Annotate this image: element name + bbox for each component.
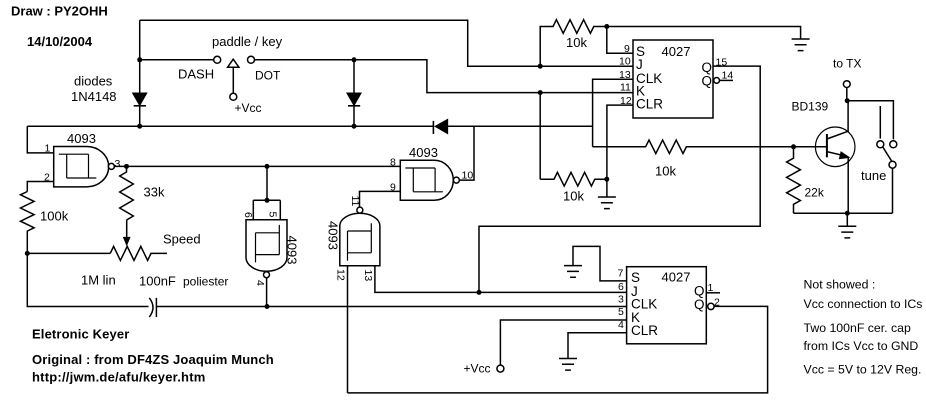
wire: S pin 9 of U5 from R3 junction xyxy=(607,27,633,54)
wire: U2 pin 9 from U4 output xyxy=(360,191,401,207)
node: collector junction xyxy=(845,98,850,103)
node: K wire branch xyxy=(538,90,543,95)
wire: U1 pin 2 input xyxy=(27,182,53,192)
wire: capacitor to CLK pin 3 of U6 4027 xyxy=(156,306,626,308)
tune switch lever diagonal xyxy=(883,147,892,161)
paddle common lever (triangle) xyxy=(228,59,239,67)
svg-text:2: 2 xyxy=(44,172,50,184)
svg-text:Vcc connection to ICs: Vcc connection to ICs xyxy=(804,297,923,311)
node: DOT contact terminal xyxy=(248,56,255,63)
wire: K branch down from pin 11 wire xyxy=(539,93,541,180)
svg-text:100nF: 100nF xyxy=(139,274,176,289)
transistor Q1 emitter arrow xyxy=(840,152,849,158)
svg-text:Original : from DF4ZS Joaquim: Original : from DF4ZS Joaquim Munch xyxy=(32,352,274,367)
gate U4 4093 (pointing up) xyxy=(340,207,380,266)
U6 Qbar pin 2 bubble xyxy=(708,303,714,309)
wire: main diode bus (right part) to CLK branch xyxy=(447,125,592,127)
diode D2 cathode bar xyxy=(348,105,360,107)
svg-text:Q: Q xyxy=(694,297,705,312)
node: R5 right to CLR ground line xyxy=(604,177,609,182)
svg-text:http://jwm.de/afu/keyer.htm: http://jwm.de/afu/keyer.htm xyxy=(32,370,206,385)
resistor R2 100k xyxy=(20,192,34,254)
svg-text:8: 8 xyxy=(390,157,396,169)
diode D1 1N4148 (DASH) wire xyxy=(139,60,141,126)
svg-text:10k: 10k xyxy=(566,35,587,50)
svg-text:diodes: diodes xyxy=(74,74,113,89)
svg-text:4093: 4093 xyxy=(326,221,341,250)
wire: emitter bottom rail xyxy=(794,212,893,214)
node: base junction R4/R6 xyxy=(791,144,796,149)
svg-text:Draw : PY2OHH: Draw : PY2OHH xyxy=(11,4,108,19)
wire: main diode bus (left part) xyxy=(27,125,433,127)
wire top: DASH junction to J pin of U5 4027 xyxy=(140,20,633,66)
node: D1 to diode bus xyxy=(137,124,142,129)
wire: S pin 7 of U6 to ground xyxy=(573,246,627,281)
diode D1 cathode bar xyxy=(134,105,146,107)
wire: to TX terminal to collector node xyxy=(846,88,848,101)
wire: emitter down to bottom rail xyxy=(847,157,849,213)
svg-text:Two 100nF cer. cap: Two 100nF cer. cap xyxy=(804,321,911,335)
svg-text:CLR: CLR xyxy=(631,323,658,338)
node: +Vcc terminal (bottom) xyxy=(497,365,504,372)
ground GND4 (CLR of U6) xyxy=(559,359,577,371)
gate U1 output bubble xyxy=(108,163,114,169)
svg-text:10k: 10k xyxy=(655,164,676,179)
svg-text:DASH: DASH xyxy=(178,67,214,82)
diode D3 body (pointing left) xyxy=(436,120,448,133)
svg-text:22k: 22k xyxy=(805,186,825,200)
wire: 100k junction to pot RV1 xyxy=(27,252,110,254)
transistor Q1 BD139 circle xyxy=(815,127,855,167)
svg-text:4093: 4093 xyxy=(67,131,96,146)
tune switch upper left contact xyxy=(877,141,884,148)
svg-text:9: 9 xyxy=(624,43,630,55)
wire: U5 Q pin 15 to second flip-flop J net xyxy=(479,66,760,292)
svg-text:10: 10 xyxy=(619,56,631,68)
svg-text:poliester: poliester xyxy=(183,275,228,289)
svg-text:4027: 4027 xyxy=(662,270,691,285)
svg-text:from ICs Vcc to GND: from ICs Vcc to GND xyxy=(804,339,919,353)
node: +Vcc terminal (paddle) xyxy=(230,93,237,100)
resistor R5 10k (K pulldown) xyxy=(540,172,607,186)
svg-text:S: S xyxy=(631,270,640,285)
wire: 33k to pot wiper arrow xyxy=(126,220,128,238)
svg-text:9: 9 xyxy=(390,182,396,194)
svg-text:BD139: BD139 xyxy=(792,100,829,114)
svg-text:Not showed :: Not showed : xyxy=(804,278,876,292)
wire: U1 pin 1 input from diode bus xyxy=(27,126,53,153)
wire: DASH junction to DASH contact xyxy=(140,59,214,61)
svg-text:15: 15 xyxy=(716,57,728,69)
svg-text:+Vcc: +Vcc xyxy=(235,101,262,115)
svg-text:2: 2 xyxy=(714,297,720,309)
IC U6 4027 box xyxy=(627,267,707,344)
diode D3 cathode bar xyxy=(432,121,434,134)
node: to TX terminal xyxy=(843,81,850,88)
capacitor C1 100nF curved plate xyxy=(149,298,153,317)
wire: CLR pin 12 of U5 to ground xyxy=(607,105,633,197)
wire: emitter rail to ground xyxy=(846,213,848,226)
node: R3 left to J wire xyxy=(538,64,543,69)
svg-text:6: 6 xyxy=(618,281,624,293)
transistor Q1 base bar xyxy=(826,134,828,157)
wire: tune switch to emitter rail xyxy=(892,168,894,213)
wire: base from R4 junction xyxy=(794,146,827,148)
wire: U3 input manifold from U1 output net xyxy=(253,166,280,219)
svg-text:14/10/2004: 14/10/2004 xyxy=(27,34,93,49)
gate U1 schmitt symbol xyxy=(59,154,97,178)
svg-text:to TX: to TX xyxy=(833,57,861,71)
wire: U4 pin 13 input to J pin 6 of U6 xyxy=(375,266,627,293)
ground GND1 (top right) xyxy=(792,39,810,51)
svg-text:Q: Q xyxy=(702,74,713,89)
capacitor C1 straight plate xyxy=(155,298,157,317)
diode D2 1N4148 body xyxy=(347,93,360,105)
wire: U4 pin 12 input from U6 Qbar net xyxy=(347,266,349,393)
gate U2 schmitt symbol xyxy=(405,168,443,192)
svg-text:1N4148: 1N4148 xyxy=(71,89,117,104)
svg-text:4: 4 xyxy=(254,280,266,286)
svg-text:12: 12 xyxy=(620,95,632,107)
svg-text:6: 6 xyxy=(242,212,254,218)
gate U3 4093 (pointing down) xyxy=(246,220,287,278)
node: D2 to diode bus xyxy=(352,124,357,129)
U5 Qbar pin 14 bubble xyxy=(714,78,720,84)
diode D2 1N4148 (DOT) wire xyxy=(353,60,355,126)
node: 100k to pot junction xyxy=(25,251,30,256)
wire: bottom left net through capacitor xyxy=(27,253,148,306)
svg-text:Vcc = 5V to 12V Reg.: Vcc = 5V to 12V Reg. xyxy=(804,363,922,377)
wire: U3 output pin 4 down to bottom net xyxy=(266,278,268,307)
svg-text:100k: 100k xyxy=(40,209,69,224)
ground GND3 (S of U6) xyxy=(564,266,582,278)
svg-text:12: 12 xyxy=(335,269,347,281)
node: emitter rail junction xyxy=(845,211,850,216)
wire: U6 Qbar pin 2 to U4 pin 12 (bottom net) xyxy=(348,306,768,393)
wire: U2 output pin 10 up to diode bus xyxy=(459,126,474,180)
svg-text:3: 3 xyxy=(115,158,121,170)
ground GND2 (CLR of U5) xyxy=(598,197,616,209)
wire: U5 Qbar pin 14 stub xyxy=(720,79,734,81)
wire: R3 right to top ground xyxy=(607,27,801,40)
node: U3 input junction xyxy=(265,164,270,169)
svg-text:4027: 4027 xyxy=(662,44,691,59)
svg-text:J: J xyxy=(636,57,643,72)
svg-text:5: 5 xyxy=(618,306,624,318)
gate U1 4093 body xyxy=(54,147,109,187)
wire: K pin 5 of U6 to +Vcc terminal xyxy=(500,320,626,365)
node: U1 output junction xyxy=(124,164,129,169)
tune switch lower contact xyxy=(889,161,896,168)
gate U2 output bubble xyxy=(453,177,459,183)
svg-text:4093: 4093 xyxy=(409,145,438,160)
node: DOT wire junction xyxy=(352,57,357,62)
node: DASH contact terminal xyxy=(214,56,221,63)
transistor Q1 collector xyxy=(827,101,848,139)
svg-text:tune: tune xyxy=(861,168,886,183)
tune switch lever (open) xyxy=(879,106,881,139)
wire: paddle common to +Vcc terminal xyxy=(232,67,234,93)
node: U3 output to bottom net xyxy=(265,304,270,309)
node: DASH wire junction xyxy=(137,57,142,62)
svg-text:DOT: DOT xyxy=(255,69,281,83)
IC U5 4027 box xyxy=(633,40,713,118)
wire: vertical from top wire to DASH junction xyxy=(139,20,141,60)
transistor Q1 emitter xyxy=(827,152,845,156)
wire: CLR pin 4 of U6 to ground xyxy=(568,333,627,359)
svg-text:4093: 4093 xyxy=(285,236,300,265)
resistor R6 22k xyxy=(787,147,801,213)
svg-text:5: 5 xyxy=(267,212,279,218)
svg-text:33k: 33k xyxy=(144,185,165,200)
svg-text:3: 3 xyxy=(618,294,624,306)
potentiometer RV1 1M lin xyxy=(110,246,167,260)
svg-text:+Vcc: +Vcc xyxy=(464,362,491,376)
resistor R4 10k (to BD139 base) xyxy=(593,140,794,154)
svg-text:10: 10 xyxy=(462,170,474,182)
svg-text:11: 11 xyxy=(620,82,631,94)
svg-text:CLR: CLR xyxy=(636,97,663,112)
svg-text:4: 4 xyxy=(618,319,624,331)
svg-text:paddle / key: paddle / key xyxy=(212,34,283,49)
wire: collector node to tune switch xyxy=(847,101,893,140)
svg-text:13: 13 xyxy=(362,270,374,282)
node: R3 right to S wire xyxy=(604,24,609,29)
wire: DOT contact to K pin 11 of U5 4027 xyxy=(255,60,633,93)
svg-text:1: 1 xyxy=(45,143,51,155)
gate U2 4093 body xyxy=(400,160,453,200)
resistor R1 33k xyxy=(120,167,134,220)
svg-text:13: 13 xyxy=(619,69,631,81)
svg-text:14: 14 xyxy=(722,70,734,82)
svg-text:Speed: Speed xyxy=(163,232,201,247)
node: U3 manifold junction xyxy=(265,198,270,203)
node: J2 wire junction xyxy=(477,290,482,295)
pot wiper arrow head xyxy=(124,238,130,245)
wire: U6 Q pin 1 stub xyxy=(706,292,720,294)
svg-text:10k: 10k xyxy=(563,189,584,204)
wire: U1 output to U2 pin 8 xyxy=(114,165,400,167)
svg-text:11: 11 xyxy=(349,196,361,207)
svg-text:7: 7 xyxy=(618,268,624,280)
svg-text:1M lin: 1M lin xyxy=(81,273,116,288)
diode D1 1N4148 body xyxy=(133,93,146,105)
ground GND5 (emitter) xyxy=(838,226,856,238)
wire: CLK pin 13 of U5 down to R4 xyxy=(593,79,633,147)
svg-text:1: 1 xyxy=(708,282,714,294)
svg-text:Eletronic Keyer: Eletronic Keyer xyxy=(32,327,129,342)
resistor R3 10k (J pullup) xyxy=(540,20,607,66)
tune switch upper right contact xyxy=(890,141,897,148)
